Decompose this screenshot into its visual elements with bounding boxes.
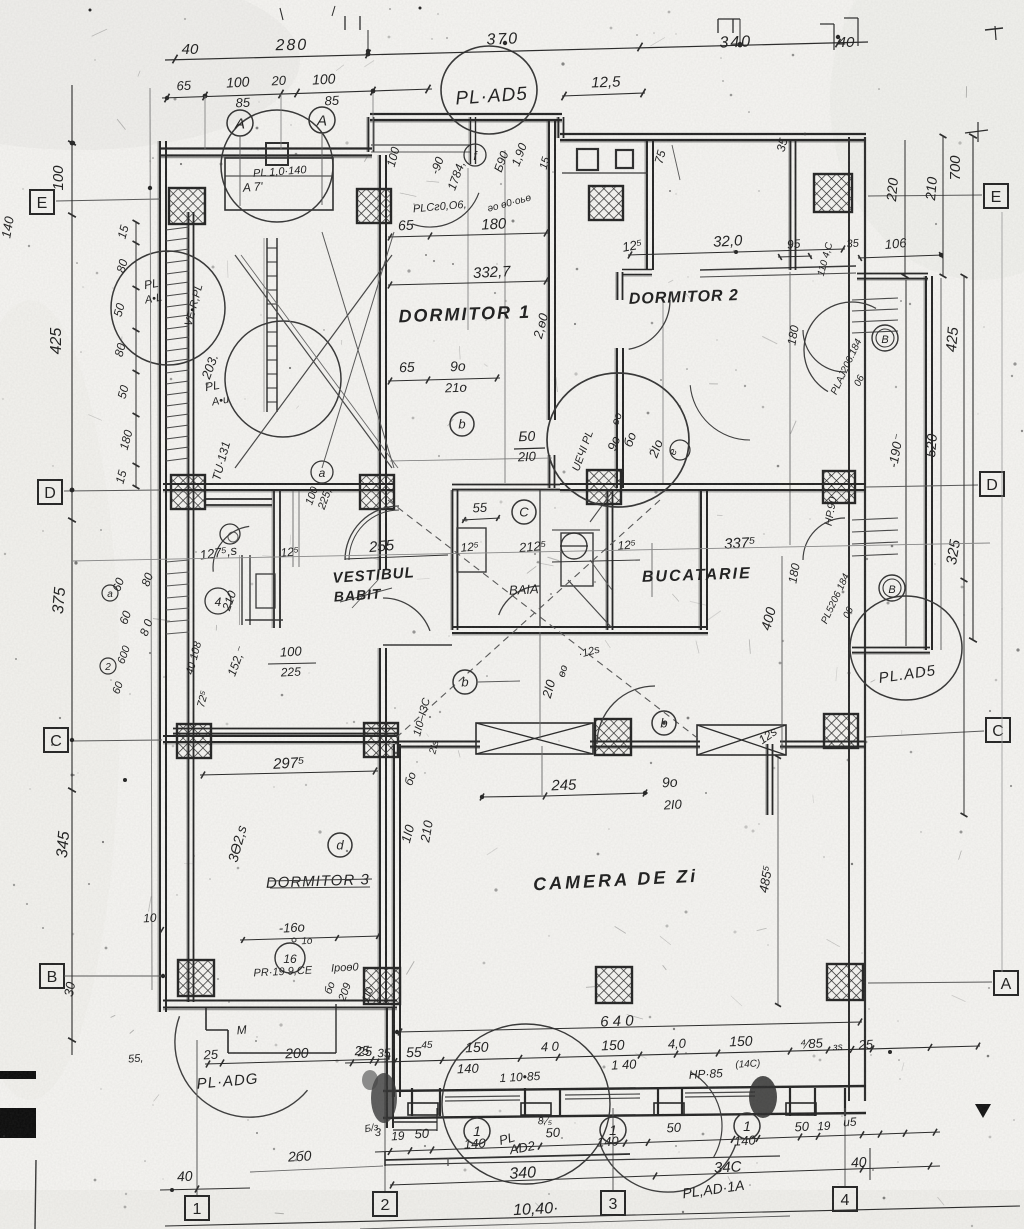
bay bottom wall	[852, 648, 930, 655]
dim 240 cam	[662, 797, 683, 813]
wall left outer	[158, 141, 166, 1012]
grid line C	[70, 731, 984, 741]
dim 72.5	[195, 689, 211, 709]
dim vline dorm1 b	[467, 168, 469, 330]
dorm1 rot 190	[509, 141, 530, 168]
bay door jamb upper	[852, 298, 898, 333]
dim 3725 rot	[225, 824, 250, 864]
circled b vest	[453, 670, 520, 694]
wall top-left	[160, 149, 372, 158]
dim 320 line	[628, 246, 845, 259]
dim right 520	[922, 433, 940, 458]
wall dormitor2 jog	[622, 270, 652, 277]
grid box 3	[601, 1191, 625, 1215]
marker B right upper	[872, 325, 898, 351]
dim chain2 85b	[324, 93, 340, 109]
dim left 80c	[138, 571, 156, 589]
dim 35 top right	[774, 136, 791, 153]
circle PL.AD2 bottom	[442, 1024, 610, 1184]
grid box 1	[185, 1196, 209, 1220]
top stray mark right	[965, 26, 1003, 142]
ink smudge entry2	[362, 1070, 397, 1123]
circle top-left detail	[221, 110, 333, 222]
dim 320	[713, 232, 744, 251]
line dormitor2 recess	[700, 266, 856, 277]
room label BAIA	[509, 581, 539, 598]
wall dormitor2 left upper	[645, 140, 653, 270]
grid box D left	[38, 480, 62, 504]
dim 125 baia	[0, 0, 1, 1]
dim rowB 19b	[817, 1119, 831, 1134]
dim 210 d1	[444, 380, 467, 396]
dim rowB 50a	[414, 1126, 430, 1142]
dim right 425	[943, 326, 962, 353]
dim right 220 line	[902, 140, 909, 278]
label lipo40	[331, 961, 360, 974]
dim left 100	[50, 165, 67, 191]
dim chain2 drop lines	[205, 91, 373, 150]
grid box D right	[980, 472, 1004, 496]
circle dormitor2 detail	[547, 373, 689, 507]
dim 65 d1b	[399, 359, 415, 376]
wall right outer	[864, 137, 866, 1101]
circled 1 b	[600, 1117, 626, 1143]
dim rowA 25b	[857, 1037, 892, 1054]
circle PL.AD1A arc	[600, 1145, 735, 1192]
wall bucatarie left	[699, 490, 707, 630]
wall camera left	[392, 744, 400, 1097]
wall dormitor3 top	[173, 729, 397, 736]
dim 2975	[123, 754, 378, 782]
label 180 right upper	[784, 324, 801, 346]
dim 640 line	[397, 1019, 862, 1036]
dim rowA 150b	[601, 1037, 625, 1054]
closet cap	[245, 619, 283, 621]
vestibul dashed X	[388, 500, 700, 745]
door arc bay upper	[803, 330, 845, 372]
dim 400 line	[781, 556, 783, 750]
left wall cabinet lower	[240, 555, 250, 625]
dim rowA 85b	[800, 1035, 824, 1052]
dim left 50a	[111, 301, 128, 318]
dorm1 plg	[412, 199, 467, 216]
dim 125 v1	[460, 539, 480, 555]
grid box E left	[30, 190, 54, 214]
dim rowA hp85	[688, 1058, 760, 1082]
circled 1 c	[734, 1113, 760, 1139]
circled 1 a	[464, 1118, 490, 1144]
dim 200	[284, 1045, 309, 1062]
camera window top-right	[697, 725, 786, 755]
top bay closet lines	[371, 145, 470, 152]
right edge grid connector	[1001, 212, 1003, 972]
dim rowB 140b	[597, 1133, 620, 1149]
dim top line	[165, 39, 868, 64]
dim left 60c	[110, 679, 126, 695]
column D1	[171, 475, 205, 509]
vestibul stub wall	[383, 644, 452, 646]
closet door arc	[213, 526, 249, 571]
wall horizontal D-row	[163, 484, 866, 492]
label PL.ADG	[196, 1070, 259, 1092]
circled 10 top d3	[292, 938, 296, 942]
dim rowA 140b	[611, 1056, 638, 1072]
top stray small marks	[89, 6, 422, 20]
label 110 4C	[816, 241, 836, 278]
dim 340a	[509, 1164, 537, 1182]
bay top wall	[857, 274, 928, 281]
ink smudge entry	[749, 1076, 777, 1118]
grid box B left	[40, 964, 64, 988]
label 180 right lower	[785, 562, 802, 584]
baia sink	[561, 533, 593, 586]
label PL.AD5 top	[455, 84, 529, 110]
dim chain2 85a	[235, 95, 251, 111]
dim 125 v0	[280, 544, 300, 560]
grid line E	[56, 195, 982, 201]
rot 140 d3	[360, 985, 377, 1004]
dim left 80b	[112, 341, 129, 358]
dim top 340	[719, 33, 752, 51]
dim top bracket 3	[718, 19, 740, 44]
dim top 40 left	[182, 41, 199, 58]
wall top-right	[560, 134, 866, 142]
grid line 1 vertical	[196, 1040, 198, 1195]
room label BABIT	[333, 585, 382, 604]
dim 55 baia	[462, 500, 500, 523]
dim 65 d1	[398, 217, 415, 234]
left wall hatch ladder	[166, 227, 189, 634]
door arc vestibul	[383, 598, 430, 631]
arc top detail	[412, 193, 479, 227]
wall right inner	[848, 137, 850, 1101]
wall vertical x383	[378, 155, 386, 1004]
room label BUCATARIE	[642, 565, 752, 586]
entry side wall	[385, 1008, 393, 1128]
dim row340 line	[390, 1163, 940, 1189]
dim right 700	[947, 155, 964, 181]
grid line 4 vertical	[844, 1108, 846, 1186]
dim chain2 100b	[312, 70, 336, 87]
dim left 60a	[109, 576, 127, 594]
camera window top-left	[476, 723, 593, 754]
dim chain2 65	[176, 78, 192, 94]
circled e d2	[670, 440, 690, 460]
dorm1 rot -90	[428, 155, 447, 176]
dim 3327	[388, 263, 548, 288]
dim 270 rot	[539, 664, 571, 701]
grid line D	[64, 485, 978, 491]
closet circle detail	[220, 524, 240, 544]
grid box C left	[44, 728, 68, 752]
baia diag	[568, 492, 612, 628]
porch steps	[393, 1108, 437, 1131]
circled 2-210	[205, 588, 239, 614]
dim rowA 55	[406, 1040, 433, 1060]
wall bottom-left	[163, 1001, 397, 1010]
circled a vest	[311, 461, 333, 483]
closet label PL 1.0-140	[253, 164, 308, 180]
label PL ALL	[204, 378, 230, 409]
door arc camera	[597, 686, 655, 744]
d2 circle texts	[570, 429, 680, 473]
column E1	[169, 188, 205, 224]
dim right 700 line	[969, 134, 977, 643]
label 203	[198, 352, 221, 382]
dim 40 bottom	[851, 1148, 870, 1180]
long line D interior	[72, 543, 990, 561]
closet wall vertical	[272, 490, 280, 628]
rot 80 d3	[322, 980, 337, 996]
circle PL.AD5 top	[441, 46, 537, 134]
door arc baia	[499, 586, 540, 615]
dorm1 closet X	[235, 232, 398, 468]
grid box C right	[986, 718, 1010, 742]
circled 16	[275, 943, 305, 973]
dim left 375	[50, 586, 69, 614]
dim right 190	[885, 433, 906, 469]
dim left 180	[117, 428, 136, 451]
column D2	[360, 475, 394, 509]
dim 240 rot d1	[530, 311, 551, 341]
wc symbol	[552, 530, 640, 562]
dim left 80a	[114, 257, 131, 274]
label 140 edge	[0, 214, 17, 239]
dim 255	[345, 537, 448, 559]
dim top 40 right	[820, 18, 858, 51]
rot 170-12C	[427, 739, 441, 756]
circle PL.AD5 right	[850, 596, 962, 700]
dim 125 v2	[617, 537, 637, 553]
label PLAJ upper	[829, 337, 867, 396]
entry jog wall	[766, 744, 773, 815]
circled b buc	[652, 711, 676, 735]
dim chain2 line	[162, 85, 432, 103]
dim 125 d1	[621, 236, 644, 254]
label M step	[236, 1023, 247, 1038]
dim left 30	[61, 980, 78, 998]
dim 160	[240, 919, 380, 943]
column E4	[814, 174, 852, 212]
grid line 3 vertical	[612, 1108, 614, 1190]
dim chain2 100a	[226, 73, 250, 90]
dim 1040	[513, 1200, 559, 1219]
dim vline dorm1 a	[504, 150, 506, 483]
babit strike	[340, 580, 392, 608]
door arc bay lower	[803, 518, 845, 560]
dim 640	[600, 1012, 635, 1030]
column C4	[824, 714, 858, 748]
dim hline dorm1	[390, 458, 552, 461]
dim rowB 50c	[666, 1120, 682, 1136]
top bay closet divider	[469, 117, 476, 164]
dim rowB line	[375, 1132, 940, 1152]
dim top 280	[274, 37, 308, 55]
dorm1 rot 90	[491, 149, 512, 174]
door arc dormitor1	[345, 506, 399, 560]
dim chain2 20	[270, 73, 287, 89]
grid box E right	[984, 184, 1008, 208]
dim right 220	[883, 177, 901, 203]
dim 90 d1	[450, 358, 466, 375]
label PLAJ lower	[819, 572, 856, 626]
dim 2125	[517, 538, 547, 555]
dim rowA 35b	[832, 1042, 843, 1054]
rot 209 d3	[336, 981, 354, 1003]
down arrow right	[975, 1104, 991, 1118]
dim right 520 line	[940, 278, 942, 650]
dim 3375	[724, 534, 756, 553]
dim rowA 140a	[457, 1061, 480, 1077]
dim rowB 19a	[391, 1129, 405, 1144]
label PL.AD2	[497, 1129, 537, 1157]
column B2	[364, 968, 400, 1004]
dim rowA 150c	[729, 1033, 753, 1050]
dim right 35	[846, 237, 860, 250]
dorm1 rot 15	[538, 155, 553, 171]
column A4	[827, 964, 863, 1000]
left wall cabinet	[264, 238, 277, 412]
dim d1 line2	[388, 375, 500, 385]
dim rowA 25a	[353, 1043, 370, 1059]
door arc entry bottom	[691, 1072, 722, 1157]
dim right 106	[884, 235, 908, 252]
bay door jamb lower	[852, 518, 898, 556]
dim vlines vestibul west	[293, 491, 299, 567]
dim 90 d2 small	[609, 411, 624, 427]
wall horizontal C-row	[163, 736, 866, 748]
circle PL.ADG arc	[175, 1016, 308, 1117]
wall dormitor2 left	[615, 272, 623, 488]
closet label A7	[241, 179, 263, 194]
grid line A	[868, 982, 992, 983]
dim 152 rot	[225, 644, 249, 678]
circle left detail 2	[225, 321, 341, 437]
dim rowA 40a	[541, 1039, 560, 1055]
circle right PLAJ arc	[804, 302, 876, 392]
dim 125 under baia	[577, 643, 601, 660]
extra band above 340	[385, 1152, 780, 1166]
left edge line bottom	[35, 1160, 36, 1229]
arc plg	[690, 385, 750, 440]
dim 40 grid1	[160, 1168, 250, 1193]
grid line B	[64, 975, 166, 977]
dim top 370	[486, 30, 519, 48]
left bottom step	[206, 1004, 336, 1053]
closet box small	[256, 574, 275, 608]
label PL.AD5 right	[878, 662, 938, 687]
closet dormitor2 bottom	[562, 172, 648, 174]
dim 280 grid	[250, 1147, 383, 1172]
window square top mid 1	[577, 149, 598, 170]
stray dots	[70, 35, 943, 1034]
dim rowB 85	[843, 1115, 857, 1130]
window square top mid 2	[616, 150, 633, 168]
label PL.AD1A	[681, 1177, 745, 1202]
label PL left circle	[143, 276, 163, 307]
wall top bay left jog	[367, 117, 374, 152]
column D4	[823, 471, 855, 503]
dim 100-225	[268, 643, 316, 679]
dim rowB ticks	[388, 1129, 937, 1155]
dim 125 top	[562, 73, 646, 100]
column C3	[595, 719, 631, 755]
dim 1040 line	[165, 1206, 1020, 1229]
column C2	[364, 723, 398, 757]
dim right 95	[778, 236, 812, 260]
label VERPL	[183, 283, 206, 328]
circled f	[464, 144, 486, 166]
dim 245	[480, 777, 648, 801]
column C1	[177, 724, 211, 758]
dim 140 d3r	[398, 822, 417, 844]
dim rowB 3	[374, 1127, 382, 1139]
wall left inner	[187, 212, 194, 1002]
bay glazing line	[905, 280, 907, 646]
dim right 425-325 line	[961, 274, 968, 817]
column A3	[596, 967, 632, 1003]
dim right 106 line	[858, 252, 943, 261]
dim 840	[714, 1158, 743, 1176]
room label VESTIBUL	[332, 564, 415, 587]
dim vline right recess	[789, 272, 791, 545]
dim right 485 line	[775, 755, 781, 1007]
dim 40-108	[184, 640, 205, 676]
left aux line	[150, 88, 152, 990]
dorm1 4090	[486, 192, 532, 214]
dim 210 d3r	[417, 818, 436, 844]
dim right 485	[756, 864, 776, 894]
circ marker left 2	[100, 658, 116, 674]
marker A1	[227, 110, 253, 206]
door arc dormitor2	[629, 300, 670, 349]
room label CAMERA	[533, 866, 699, 895]
room label DORMITOR1	[398, 302, 531, 327]
grid box 2	[373, 1192, 397, 1216]
baia divider	[539, 490, 541, 628]
wall dormitor1 right	[547, 120, 555, 488]
dim 75 rot	[652, 145, 680, 180]
dim left 425	[48, 328, 65, 355]
closet wall stub D1	[204, 499, 272, 507]
dim top bracket 2	[345, 16, 368, 51]
wall top bay horizontal	[370, 114, 562, 122]
dim right 210	[922, 176, 940, 202]
dim vline baia south	[540, 632, 542, 795]
dim 60 rot	[401, 770, 419, 788]
dorm1 rot 100	[384, 145, 403, 168]
dim 55 adg	[128, 1052, 144, 1065]
baia right wall	[606, 490, 613, 630]
dim left outer line	[68, 85, 76, 1055]
marker A2	[309, 107, 335, 205]
black bar left	[0, 1071, 36, 1079]
dim left 80d	[137, 617, 156, 638]
grid line 2 vertical	[384, 1058, 386, 1191]
rot 140-120	[411, 697, 433, 738]
label TU131	[209, 440, 233, 482]
dim 25 adg	[202, 1047, 219, 1063]
column E2	[357, 189, 391, 223]
circled b cam	[663, 722, 665, 724]
baia bottom wall	[452, 627, 708, 635]
room label DORMITOR3	[266, 871, 372, 892]
dim vline dorm2	[662, 302, 664, 483]
dim left 50b	[115, 383, 132, 400]
wall top bay right jog	[557, 117, 564, 138]
dim rowA 150a	[465, 1039, 489, 1056]
dim 180 d1	[388, 215, 548, 240]
